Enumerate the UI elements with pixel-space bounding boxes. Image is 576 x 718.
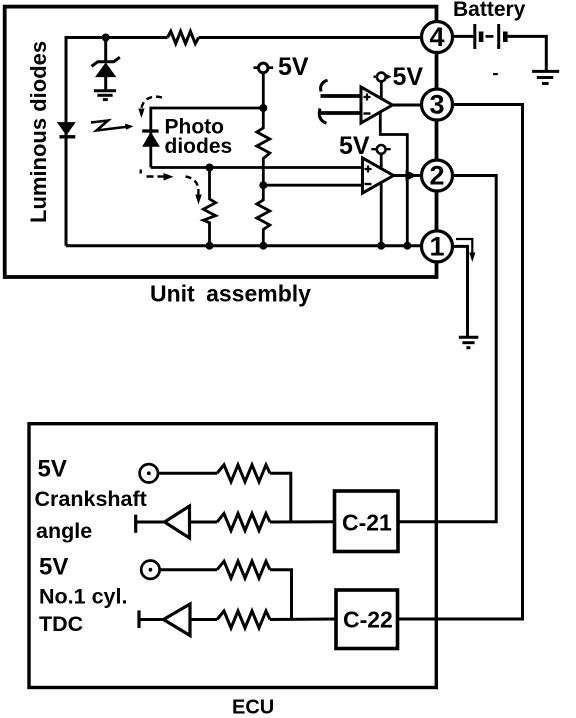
svg-text:TDC: TDC: [39, 612, 83, 636]
connector circle 1: [422, 231, 453, 262]
connector circle 3: [422, 89, 453, 120]
svg-text:5V: 5V: [393, 63, 424, 91]
svg-text:diodes: diodes: [165, 135, 233, 158]
wire top rail: [66, 38, 422, 246]
svg-text:angle: angle: [36, 519, 92, 543]
node rail dot U1 route: [403, 242, 411, 250]
svg-text:C-22: C-22: [343, 607, 393, 633]
connector circle 2: [422, 160, 453, 191]
wire connector 3 to C-22 feed: [398, 105, 523, 620]
wire tick to buffer 2: [139, 618, 164, 621]
ground G2 battery: [532, 71, 559, 83]
terminal T2 TDC: [141, 561, 159, 579]
wire U1 output to connector 3: [393, 104, 422, 107]
svg-text:Crankshaft: Crankshaft: [35, 487, 147, 511]
node rail dot R-pd: [206, 242, 214, 250]
svg-text:5V: 5V: [38, 455, 67, 482]
svg-text:1: 1: [429, 231, 444, 261]
wire T2 to corner: [160, 570, 292, 619]
connector C-22: [336, 590, 398, 649]
svg-text:5V: 5V: [278, 53, 309, 81]
luminous diode LED1: [58, 123, 76, 137]
divider chain: 5V to rail with R1, R2: [257, 73, 270, 246]
5V terminal U1: [374, 73, 392, 82]
svg-text:2: 2: [429, 161, 444, 191]
terminal T1 crankshaft: [140, 464, 158, 482]
svg-text:Battery: Battery: [453, 0, 526, 21]
stray mark: [493, 73, 498, 75]
resistor R6: [217, 611, 270, 628]
ground G3: [459, 337, 479, 347]
resistor R4: [217, 514, 270, 531]
node rail dot U2: [377, 242, 385, 250]
svg-text:3: 3: [429, 90, 444, 120]
op-amp U1: [361, 87, 393, 123]
svg-text:ECU: ECU: [232, 696, 274, 718]
wire photodiode output to op-amp U2 + input: [151, 166, 363, 169]
wire U2 supply and ground route: [380, 154, 383, 246]
zener diode D1: [92, 38, 120, 90]
connector circle 4: [422, 22, 453, 53]
svg-text:4: 4: [429, 22, 444, 52]
wire buffer to C-21: [190, 520, 335, 523]
svg-text:C-21: C-21: [342, 510, 392, 536]
current arrow at connector 1: [456, 239, 475, 262]
wire U1 ground route: [380, 112, 407, 246]
5V terminal U2: [371, 145, 390, 154]
op-amp U1 input wires: [321, 96, 362, 113]
node rail dot divider: [259, 242, 267, 250]
wire U2 output with arrow to connector 2: [394, 174, 422, 177]
wire U1 supply from 5V: [380, 82, 383, 99]
unit assembly box: [5, 7, 437, 277]
wire bottom ground rail: [66, 244, 422, 247]
svg-text:5V: 5V: [339, 132, 370, 160]
brace hook lower: [319, 109, 326, 124]
end tick T2b: [137, 610, 140, 628]
wire divider tap to op-amp U2 - input: [263, 184, 362, 187]
resistor R-top: [168, 31, 199, 43]
node zener top junction: [102, 34, 110, 42]
svg-text:5V: 5V: [39, 554, 68, 581]
ground G1: [94, 91, 116, 100]
op-amp U2: [363, 158, 394, 193]
svg-text:Unit assembly: Unit assembly: [150, 281, 311, 307]
resistor R-pd vertical: [203, 168, 215, 246]
wire connector 1 to ground: [453, 246, 468, 336]
buffer A2: [164, 604, 191, 636]
dashed light arrow into photodiode: [138, 97, 162, 118]
node loop-top 5V junction: [259, 104, 267, 112]
buffer A1: [165, 506, 190, 538]
svg-text:No.1 cyl.: No.1 cyl.: [39, 584, 127, 608]
photo diode PD1: [142, 131, 159, 146]
ECU box: [29, 424, 436, 688]
wire tick to buffer: [136, 521, 165, 524]
dashed current arrow below photodiode: [141, 170, 202, 205]
light emission z-arrow: [91, 121, 134, 131]
connector chain vertical: [436, 22, 439, 263]
wire T1 to corner: [158, 473, 291, 521]
battery B1: [453, 24, 547, 70]
svg-text:Luminous diodes: Luminous diodes: [26, 41, 51, 223]
resistor R5: [217, 561, 270, 578]
wire connector 2 to C-21 feed: [398, 176, 496, 522]
wire buffer2 to C-22: [190, 618, 336, 622]
node photodiode bottom junction: [206, 164, 214, 172]
brace hook upper: [321, 80, 328, 91]
5V terminal T-top: [254, 63, 274, 73]
node divider tap junction: [259, 181, 267, 189]
connector C-21: [335, 491, 399, 552]
resistor R3: [217, 465, 270, 482]
photo diode loop wires: [151, 108, 263, 168]
end tick T1b: [134, 515, 137, 533]
